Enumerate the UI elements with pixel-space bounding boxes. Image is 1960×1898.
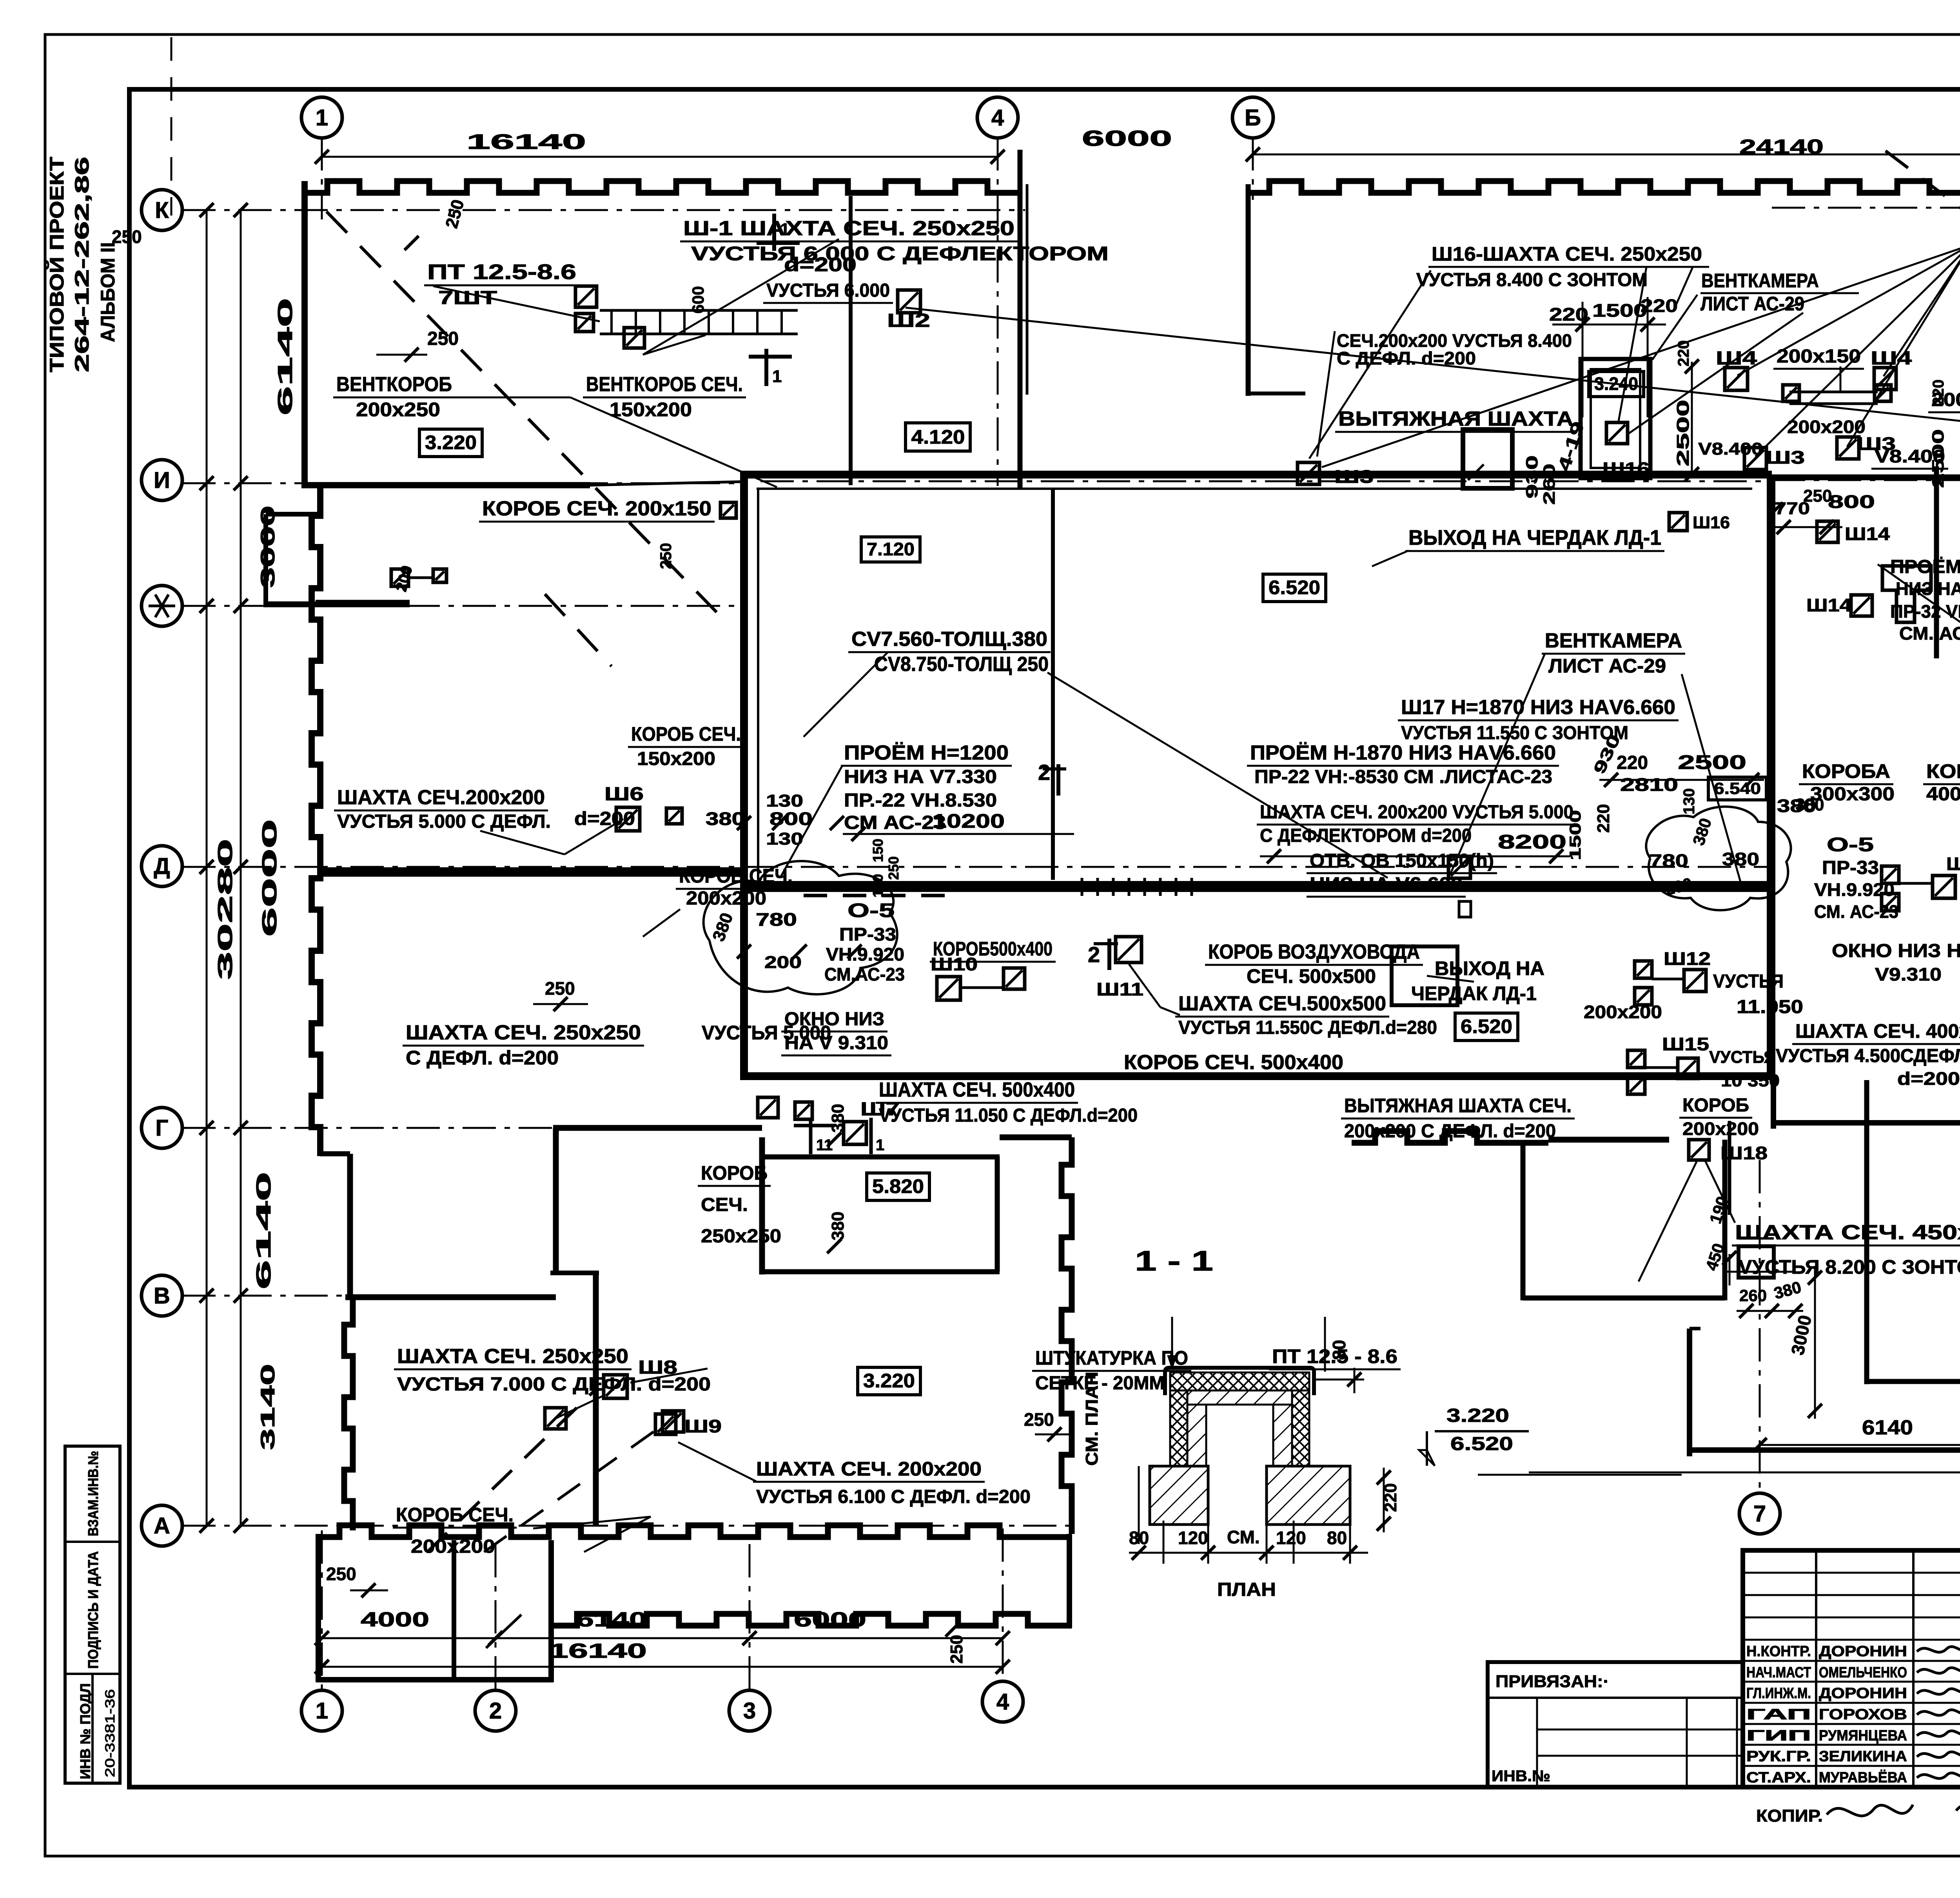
svg-text:К: К: [155, 198, 169, 223]
svg-text:d=200: d=200: [574, 809, 635, 829]
axis 1 line: [321, 137, 323, 219]
axis Г line: [182, 1127, 596, 1129]
svg-text:3.220: 3.220: [425, 431, 477, 453]
dashed diag TR1: [1886, 151, 1960, 210]
leader sh18b: [1705, 1161, 1735, 1223]
wall TL left: [301, 181, 308, 488]
svg-text:2: 2: [489, 1698, 502, 1724]
svg-text:ШАХТА СЕЧ.200х200: ШАХТА СЕЧ.200х200: [337, 786, 545, 809]
box 6.520 hall: [1263, 574, 1326, 602]
svg-text:Ш3: Ш3: [1766, 447, 1805, 468]
corridor wall hatch: [1081, 878, 1083, 896]
shaft д5: [391, 569, 408, 586]
svg-text:ГЛ.ИНЖ.М.: ГЛ.ИНЖ.М.: [1746, 1685, 1811, 1702]
svg-text:130: 130: [870, 874, 886, 897]
svg-text:ПР-33: ПР-33: [839, 924, 896, 944]
axis circle 7 bottom: [1739, 1493, 1780, 1534]
svg-text:VУСТЬЯ 5.000 С ДЕФЛ.: VУСТЬЯ 5.000 С ДЕФЛ.: [337, 811, 551, 832]
wall bottom wing left: [316, 1534, 321, 1682]
svg-text:ИНВ № ПОДЛ: ИНВ № ПОДЛ: [77, 1683, 93, 1779]
shaft Ш4c: [1874, 368, 1896, 390]
box 3.240: [1589, 372, 1644, 397]
shaft Ш7: [844, 1122, 866, 1144]
svg-text:1: 1: [780, 220, 789, 239]
svg-text:VУСТЬЯ 4.500СДЕФЛЕК.: VУСТЬЯ 4.500СДЕФЛЕК.: [1776, 1046, 1960, 1066]
svg-text:ПРОЁМ Н=1200: ПРОЁМ Н=1200: [844, 741, 1009, 764]
svg-text:СМ. ПЛАН: СМ. ПЛАН: [1082, 1372, 1102, 1466]
svg-text:ШТУКАТУРКА ПО: ШТУКАТУРКА ПО: [1035, 1347, 1188, 1369]
svg-text:НА V 9.310: НА V 9.310: [784, 1033, 888, 1053]
leader sh11: [1129, 964, 1160, 1007]
svg-text:ПТ 12.5-8.6: ПТ 12.5-8.6: [427, 260, 576, 284]
svg-text:ПРОЁМ Н-1800: ПРОЁМ Н-1800: [1890, 557, 1960, 577]
svg-text:20-3381-36: 20-3381-36: [103, 1689, 118, 1777]
svg-text:2500: 2500: [1929, 429, 1947, 488]
svg-text:Ш17 Н=1870 НИЗ НАV6.660: Ш17 Н=1870 НИЗ НАV6.660: [1401, 696, 1675, 719]
wall В: [345, 1294, 556, 1300]
svg-text:220: 220: [1930, 379, 1947, 406]
svg-text:СV7.560-ТОЛЩ.380: СV7.560-ТОЛЩ.380: [851, 628, 1047, 651]
svg-text:VУСТЬЯ 6.000: VУСТЬЯ 6.000: [766, 280, 890, 301]
dim line 7-8: [1760, 1444, 1960, 1446]
svg-text:С ДЕФЛ. d=200: С ДЕФЛ. d=200: [1337, 348, 1476, 368]
svg-text:Ш-1 ШАХТА СЕЧ. 250х250: Ш-1 ШАХТА СЕЧ. 250х250: [683, 217, 1014, 240]
svg-text:Ш10: Ш10: [931, 954, 978, 974]
margin stamp strip: [65, 1446, 120, 1783]
svg-text:260: 260: [1739, 1286, 1767, 1305]
wall LL left: [312, 488, 320, 1156]
shaft Ш3b: [1744, 448, 1766, 470]
dim line 7-8 b: [1529, 1472, 1960, 1474]
svg-text:6.520: 6.520: [1450, 1434, 1513, 1454]
svg-text:Ш18: Ш18: [1720, 1143, 1768, 1163]
svg-text:80: 80: [1329, 1340, 1349, 1360]
svg-text:ПР-22 VН:-8530 СМ .ЛИСТАС-23: ПР-22 VН:-8530 СМ .ЛИСТАС-23: [1254, 767, 1552, 787]
svg-text:СТ.АРХ.: СТ.АРХ.: [1746, 1769, 1811, 1786]
svg-text:ТИПОВОЙ ПРОЕКТ: ТИПОВОЙ ПРОЕКТ: [45, 157, 68, 372]
svg-text:СМ.: СМ.: [1227, 1527, 1260, 1547]
svg-text:КОРОБ СЕЧ.: КОРОБ СЕЧ.: [631, 723, 741, 745]
svg-text:СЕЧ. 500х500: СЕЧ. 500х500: [1247, 965, 1376, 987]
svg-text:ПОДПИСЬ И ДАТА: ПОДПИСЬ И ДАТА: [85, 1551, 101, 1669]
leader П plates: [433, 286, 600, 321]
box 6.540: [1708, 777, 1766, 800]
left dim col inner: [240, 210, 242, 1526]
hall interior wall 7.120: [1051, 489, 1055, 880]
leader triangle Ш-1: [643, 239, 839, 355]
leader exit2: [1427, 976, 1474, 982]
svg-text:4.120: 4.120: [911, 426, 965, 448]
svg-text:16140: 16140: [549, 1640, 647, 1662]
axis 3 line: [749, 1544, 751, 1691]
axis circle Г left: [142, 1108, 182, 1148]
dim line sr2: [1814, 1266, 1816, 1419]
axis А line: [182, 1525, 1074, 1527]
wall Д corridor left: [321, 867, 744, 877]
svg-text:2: 2: [1038, 760, 1050, 785]
axis circle А left: [142, 1505, 182, 1546]
svg-text:А: А: [154, 1513, 170, 1539]
svg-text:КОПИР.: КОПИР.: [1756, 1806, 1823, 1825]
wall В-А right: [593, 1273, 599, 1526]
svg-text:ВЕНТКОРОБ: ВЕНТКОРОБ: [336, 373, 452, 396]
dim tick: [200, 203, 214, 217]
svg-text:250: 250: [112, 227, 142, 247]
svg-text:150: 150: [870, 839, 886, 862]
svg-text:6.520: 6.520: [1461, 1015, 1512, 1037]
svg-text:ПРОЁМ Н-1870 НИЗ НАV6.660: ПРОЁМ Н-1870 НИЗ НАV6.660: [1250, 741, 1556, 764]
long leader to Ш3: [906, 308, 1960, 421]
svg-text:ГОРОХОВ: ГОРОХОВ: [1819, 1706, 1907, 1723]
svg-text:VУСТЬЯ 8.200 С ЗОНТОМ: VУСТЬЯ 8.200 С ЗОНТОМ: [1739, 1256, 1960, 1278]
svg-text:ШАХТА СЕЧ. 250х250: ШАХТА СЕЧ. 250х250: [397, 1345, 628, 1368]
wall В-А jog: [550, 1271, 599, 1275]
title table row lines: [1743, 1572, 1960, 1574]
axis И line: [182, 482, 743, 484]
svg-text:Ш9: Ш9: [684, 1416, 722, 1436]
wall TL right: [1018, 150, 1023, 488]
shaft Ш4b: [1725, 368, 1748, 390]
svg-text:Ш12: Ш12: [1664, 948, 1711, 969]
dim tick: [200, 1289, 214, 1303]
leader Ш6: [480, 831, 564, 854]
wall TL interior: [849, 196, 853, 485]
axis circle 4 top: [977, 97, 1018, 138]
svg-text:VУСТЬЯ 6.000 С ДЕФЛЕКТОРОМ: VУСТЬЯ 6.000 С ДЕФЛЕКТОРОМ: [691, 243, 1109, 265]
hall left wall: [740, 475, 748, 1080]
box 3.220 TL: [419, 429, 482, 457]
leader Ш8 line: [630, 1369, 708, 1383]
svg-text:30280: 30280: [214, 839, 237, 980]
svg-text:ВЫТЯЖНАЯ ШАХТА: ВЫТЯЖНАЯ ШАХТА: [1338, 408, 1573, 430]
svg-text:КОРОБ: КОРОБ: [1926, 760, 1960, 782]
shaft Ш12: [1684, 970, 1706, 992]
svg-text:ВЕНТКОРОБ СЕЧ.: ВЕНТКОРОБ СЕЧ.: [586, 373, 743, 396]
dim line 10200: [843, 833, 1074, 835]
sec mark 11a: [809, 1118, 813, 1154]
hall left wall inner: [757, 489, 759, 880]
leader Venkorob: [452, 397, 570, 399]
axis circle 1 bottom: [301, 1690, 342, 1731]
dim line 8200: [1260, 856, 1570, 857]
leader ventkam c: [1450, 654, 1545, 874]
leader korob4: [533, 1517, 651, 1528]
svg-text:250: 250: [657, 543, 675, 569]
shaft отв: [1448, 856, 1470, 878]
hall top wall: [740, 471, 1772, 479]
svg-text:11.050: 11.050: [1737, 997, 1803, 1017]
box 7.120: [861, 537, 920, 562]
shaft symbol a: [575, 286, 597, 307]
axis 4 line: [997, 137, 999, 486]
svg-text:250: 250: [947, 1635, 966, 1664]
svg-text:380: 380: [828, 1104, 848, 1133]
underline vert 200x150: [1840, 366, 1842, 392]
svg-text:200х200: 200х200: [411, 1536, 495, 1557]
svg-text:7.120: 7.120: [867, 539, 915, 559]
axis circle И left: [142, 460, 182, 500]
dim line bottom row1: [322, 1637, 1003, 1639]
koro b sym: [720, 502, 736, 518]
svg-text:СМ. АС-23: СМ. АС-23: [1899, 623, 1960, 644]
svg-text:380: 380: [706, 809, 745, 829]
section mark 1 top: [772, 214, 776, 251]
dim line bottom row2: [322, 1666, 1003, 1668]
wall R h 3525: [1867, 1379, 1960, 1384]
signature bottom: [1956, 1802, 1960, 1812]
svg-text:250: 250: [1024, 1409, 1054, 1430]
wall 3.220 block top: [1000, 1135, 1072, 1140]
svg-text:200х250: 200х250: [356, 399, 440, 421]
svg-text:НАЧ.МАСТ: НАЧ.МАСТ: [1746, 1664, 1811, 1681]
leader proem: [780, 766, 842, 878]
svg-text:VУСТЬЯ 8.400 С ЗОНТОМ: VУСТЬЯ 8.400 С ЗОНТОМ: [1416, 270, 1648, 290]
svg-text:VУСТЬЯ 11.550С ДЕФЛ.d=280: VУСТЬЯ 11.550С ДЕФЛ.d=280: [1178, 1017, 1437, 1038]
dim tick: [200, 860, 214, 874]
svg-text:ЧЕРДАК ЛД-1: ЧЕРДАК ЛД-1: [1411, 983, 1537, 1004]
axis circle В left: [142, 1275, 182, 1316]
wall big room left: [1771, 1076, 1776, 1129]
svg-text:Ш16: Ш16: [1602, 459, 1650, 479]
dim line 770: [1774, 526, 1842, 528]
left dim col outer: [206, 210, 208, 1526]
dim tick: [200, 476, 214, 490]
shaft Ш2: [898, 290, 920, 313]
shaft Ш14b: [1851, 595, 1872, 616]
svg-text:150х200: 150х200: [610, 399, 692, 421]
dashed diagonal TL: [327, 212, 717, 612]
hall bottom wall: [740, 1072, 1772, 1080]
wall bottom wing divider: [452, 1540, 456, 1680]
svg-text:ПР.-22 VН.8.530: ПР.-22 VН.8.530: [844, 790, 997, 811]
svg-text:200х150: 200х150: [1777, 346, 1861, 367]
svg-text:6140: 6140: [274, 298, 297, 415]
svg-text:КОРОБ СЕЧ. 500х400: КОРОБ СЕЧ. 500х400: [1124, 1051, 1343, 1074]
svg-text:10200: 10200: [932, 810, 1005, 832]
svg-text:4: 4: [991, 105, 1004, 131]
exit hatch square: [1392, 946, 1457, 1005]
svg-text:2500: 2500: [1673, 400, 1693, 466]
wall 5.820 top: [762, 1155, 1000, 1160]
detail 1-1 dims: [1138, 1466, 1140, 1544]
wall Ж segment: [316, 600, 410, 606]
svg-text:80: 80: [1129, 1528, 1149, 1548]
axis Б line: [1252, 137, 1254, 200]
wall SR v shaft col: [1728, 1121, 1731, 1215]
wall TL bottom: [301, 482, 590, 488]
ПТ plates row: [600, 309, 798, 312]
wall bottom wing top: [316, 1525, 1072, 1537]
svg-text:220: 220: [1617, 752, 1648, 773]
leader sh16: [1618, 267, 1646, 423]
shaft Ш10: [937, 977, 960, 1000]
svg-text:3140: 3140: [257, 1364, 279, 1450]
leader zont: [1673, 267, 1693, 312]
svg-text:ШАХТА СЕЧ. 250х250: ШАХТА СЕЧ. 250х250: [406, 1021, 641, 1044]
svg-text:ОКНО НИЗ НА: ОКНО НИЗ НА: [1832, 941, 1960, 961]
svg-text:6140: 6140: [252, 1172, 275, 1289]
svg-text:4: 4: [996, 1689, 1009, 1715]
svg-text:КОРОБ СЕЧ. 200х150: КОРОБ СЕЧ. 200х150: [482, 497, 711, 520]
svg-text:150х200: 150х200: [637, 749, 715, 769]
svg-text:6000: 6000: [258, 819, 281, 937]
jut room walls: [266, 512, 321, 517]
svg-text:Ш11: Ш11: [1096, 979, 1143, 999]
shaft Ш6: [616, 807, 640, 831]
wall TR left jog: [1248, 392, 1305, 395]
svg-text:АЛЬБОМ II: АЛЬБОМ II: [97, 242, 119, 342]
svg-text:МУРАВЬЁВА: МУРАВЬЁВА: [1819, 1769, 1907, 1786]
duct line tr: [1789, 391, 1878, 393]
axis И dash in hall: [760, 480, 1766, 482]
svg-text:ВЕНТКАМЕРА: ВЕНТКАМЕРА: [1701, 270, 1819, 292]
svg-text:400х300: 400х300: [1926, 784, 1960, 805]
svg-text:200х200: 200х200: [1584, 1002, 1662, 1022]
svg-text:24140: 24140: [1739, 136, 1824, 158]
svg-text:250: 250: [326, 1564, 356, 1584]
svg-text:ВЫТЯЖНАЯ ШАХТА СЕЧ.: ВЫТЯЖНАЯ ШАХТА СЕЧ.: [1344, 1095, 1572, 1117]
svg-text:Ш15: Ш15: [1662, 1034, 1709, 1054]
svg-text:VУСТЬЯ 6.100 С ДЕФЛ. d=200: VУСТЬЯ 6.100 С ДЕФЛ. d=200: [756, 1486, 1031, 1507]
wall LL step: [320, 1151, 350, 1157]
wall bottom wing right deep: [548, 1540, 554, 1682]
svg-text:СV8.750-ТОЛЩ 250: СV8.750-ТОЛЩ 250: [874, 653, 1049, 676]
svg-text:250: 250: [1803, 486, 1832, 506]
vent chamber room 3.240: [1581, 359, 1650, 478]
svg-text:ШАХТА СЕЧ. 400х300: ШАХТА СЕЧ. 400х300: [1795, 1020, 1960, 1042]
leader vykhod: [1372, 551, 1408, 566]
svg-text:Ш16: Ш16: [1693, 513, 1730, 532]
svg-text:КОРОБА: КОРОБА: [1802, 760, 1890, 782]
svg-text:7: 7: [1753, 1501, 1766, 1526]
svg-text:380: 380: [1722, 849, 1759, 869]
wall Г segment: [553, 1125, 762, 1131]
cloud right: [1646, 807, 1791, 910]
axis 2 line: [495, 1544, 497, 1691]
corridor wall Д: [744, 881, 1768, 892]
shaft Ш16 b: [1669, 513, 1687, 531]
svg-text:ПР-32 VН.Б.160: ПР-32 VН.Б.160: [1890, 601, 1960, 622]
wall 3.220 block right: [1062, 1137, 1072, 1534]
svg-text:НИЗ НА V6.600: НИЗ НА V6.600: [1310, 874, 1463, 895]
wall 5.820 left: [759, 1137, 765, 1274]
svg-text:1 - 1: 1 - 1: [1135, 1245, 1213, 1277]
svg-text:ПЛАН: ПЛАН: [1217, 1579, 1276, 1600]
svg-text:6.520: 6.520: [1269, 576, 1320, 598]
svg-text:1: 1: [876, 1137, 884, 1154]
svg-text:ВЗАМ.ИНВ.№: ВЗАМ.ИНВ.№: [85, 1451, 101, 1536]
svg-text:НИЗ НА V3.600: НИЗ НА V3.600: [1896, 578, 1960, 599]
svg-text:Ш14: Ш14: [1806, 595, 1851, 615]
svg-text:1: 1: [316, 105, 328, 131]
axis circle Б top: [1232, 97, 1273, 138]
leader shahty: [1878, 564, 1960, 689]
wall 5.820 bottom: [762, 1269, 1000, 1274]
svg-text:10 350: 10 350: [1721, 1071, 1780, 1090]
shaft symbol b: [624, 328, 644, 348]
shaft pair B: [545, 1408, 566, 1429]
arrow shtuk: [1171, 1317, 1173, 1364]
level line d11: [1478, 1474, 1682, 1476]
svg-text:930: 930: [1523, 455, 1541, 499]
svg-text:3.220: 3.220: [1446, 1405, 1509, 1426]
hall top wall inner: [757, 488, 1752, 490]
svg-text:КОРОБ: КОРОБ: [1682, 1095, 1749, 1116]
axis Д line: [182, 866, 745, 868]
wall В-А left crenel: [344, 1297, 353, 1530]
hall right wall: [1767, 475, 1775, 1080]
svg-text:120: 120: [1276, 1528, 1306, 1548]
title block outline: [1743, 1550, 1960, 1787]
wall bottom wing bottom deep: [316, 1677, 554, 1682]
svg-text:780: 780: [756, 909, 797, 930]
shaft Ш14a: [1817, 521, 1838, 542]
shaft Ш15b: [1678, 1058, 1698, 1079]
svg-text:ИНВ.№: ИНВ.№: [1492, 1767, 1550, 1785]
wall big room bottom: [1690, 1447, 1960, 1453]
svg-text:О-5: О-5: [1827, 834, 1874, 856]
svg-text:800: 800: [1828, 491, 1875, 512]
shaft Ш9: [655, 1414, 676, 1434]
svg-text:ГИП: ГИП: [1746, 1728, 1811, 1744]
svg-text:КОРОБ ВОЗДУХОВОДА: КОРОБ ВОЗДУХОВОДА: [1208, 941, 1420, 963]
svg-text:200х200: 200х200: [1682, 1118, 1759, 1139]
svg-text:130: 130: [1681, 788, 1698, 814]
svg-text:Ш6: Ш6: [604, 784, 644, 805]
wall TR left: [1246, 184, 1251, 396]
leader Ш18: [1639, 1160, 1697, 1282]
svg-text:2: 2: [1088, 942, 1100, 967]
svg-text:264-12-262,86: 264-12-262,86: [71, 157, 93, 372]
leader korob3: [643, 909, 680, 937]
dim line 24140 top: [1253, 154, 1960, 156]
wall bottom wing right: [1067, 1534, 1072, 1628]
svg-text:ДОРОНИН: ДОРОНИН: [1819, 1643, 1907, 1660]
box 3.220 south: [858, 1367, 920, 1395]
svg-text:780: 780: [1649, 850, 1688, 871]
svg-text:6000: 6000: [1082, 126, 1172, 150]
svg-text:СМ.АС-23: СМ.АС-23: [824, 964, 905, 984]
svg-text:VУСТЬЯ 11.050 С ДЕФЛ.d=200: VУСТЬЯ 11.050 С ДЕФЛ.d=200: [879, 1105, 1138, 1126]
svg-text:В: В: [154, 1283, 170, 1309]
svg-text:120: 120: [1178, 1528, 1208, 1548]
svg-text:VН.9.920: VН.9.920: [826, 944, 904, 964]
svg-text:ВЫХОД НА ЧЕРДАК ЛД-1: ВЫХОД НА ЧЕРДАК ЛД-1: [1408, 526, 1661, 549]
svg-text:ЛИСТ АС-29: ЛИСТ АС-29: [1700, 293, 1804, 315]
svg-text:ОКНО НИЗ: ОКНО НИЗ: [784, 1009, 884, 1030]
svg-text:16140: 16140: [466, 130, 586, 154]
wall SR exit room: [1521, 1143, 1526, 1300]
svg-text:130: 130: [766, 791, 803, 810]
wall 5.820 right: [995, 1157, 1000, 1272]
svg-text:Д: Д: [154, 854, 170, 879]
dim line 16140 top: [322, 156, 998, 158]
shaft Ш3d: [1298, 462, 1319, 484]
svg-text:Ш3: Ш3: [1334, 466, 1374, 487]
svg-text:Г: Г: [156, 1115, 169, 1141]
wall big room top: [1773, 1120, 1960, 1126]
svg-text:Ш4: Ш4: [1871, 348, 1912, 369]
svg-text:ГАП: ГАП: [1746, 1706, 1811, 1723]
svg-text:Б: Б: [1245, 105, 1261, 131]
axis 7 line: [1759, 1160, 1761, 1493]
svg-text:КОРОБ: КОРОБ: [701, 1162, 768, 1184]
svg-text:2500: 2500: [1678, 751, 1746, 773]
svg-text:ОМЕЛЬЧЕНКО: ОМЕЛЬЧЕНКО: [1819, 1664, 1907, 1681]
axis circle Ж left: [142, 586, 182, 626]
svg-text:1500: 1500: [1567, 810, 1584, 860]
wall LL left lower: [347, 1154, 353, 1297]
